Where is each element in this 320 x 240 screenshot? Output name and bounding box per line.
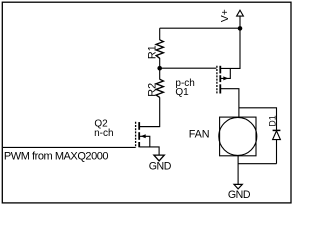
wire top horizontal	[160, 27, 240, 29]
Q1 source lead	[221, 28, 240, 68]
Q1 drain lead	[221, 89, 239, 118]
resistor R1	[156, 40, 163, 59]
wire drain node to diode branch	[239, 108, 277, 131]
svg-text:V+: V+	[220, 9, 231, 22]
Q2 channel segments	[138, 122, 140, 147]
diode D1	[273, 130, 281, 163]
Q2 body lead with arrow	[140, 136, 150, 147]
transistor Q1 p-ch MOSFET	[217, 28, 240, 117]
ground under fan	[234, 184, 242, 189]
Q2 drain lead	[140, 126, 160, 128]
wire R1 bottom	[159, 58, 161, 68]
wire gate Q1	[160, 67, 217, 69]
svg-text:Q1: Q1	[175, 87, 189, 98]
wire PWM input	[3, 146, 136, 148]
V+ terminal arrow	[237, 10, 244, 28]
Q1 body lead with arrow	[221, 68, 231, 78]
resistor R2	[156, 79, 163, 97]
svg-text:GND: GND	[228, 189, 251, 201]
Q2 gate bar	[135, 122, 137, 148]
Q1 channel segments	[219, 66, 221, 94]
svg-text:PWM from MAXQ2000: PWM from MAXQ2000	[4, 150, 109, 162]
wire R2 top	[159, 68, 161, 79]
fan M1	[219, 117, 257, 156]
transistor Q2 n-ch MOSFET	[136, 122, 160, 155]
ground under Q2	[154, 155, 164, 161]
wire R1 top	[159, 28, 161, 40]
wire fan bottom node	[238, 156, 276, 185]
svg-text:n-ch: n-ch	[94, 128, 113, 139]
svg-text:R1: R1	[146, 45, 158, 59]
node junction at V+	[238, 26, 243, 31]
svg-text:FAN: FAN	[189, 129, 210, 141]
border frame	[2, 2, 291, 203]
wire R2 bottom to Q2 drain	[140, 97, 160, 126]
svg-text:D1: D1	[268, 115, 278, 126]
Q1 gate bar	[216, 66, 218, 94]
svg-text:GND: GND	[149, 161, 172, 173]
node junction R1/R2/gate	[157, 66, 162, 71]
svg-text:R2: R2	[146, 83, 158, 97]
Q2 source lead	[140, 147, 160, 155]
